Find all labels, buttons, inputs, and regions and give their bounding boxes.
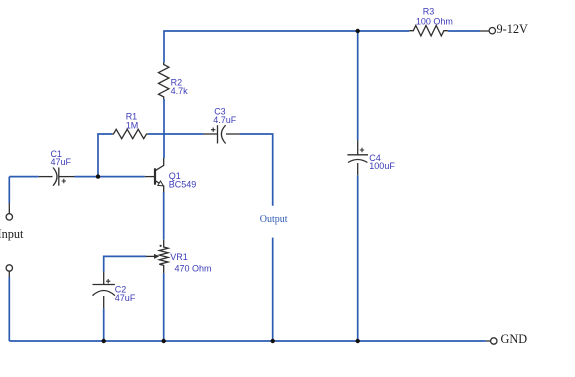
svg-text:47uF: 47uF — [115, 293, 136, 303]
svg-text:4.7k: 4.7k — [171, 86, 189, 96]
svg-text:GND: GND — [501, 332, 528, 346]
svg-text:1M: 1M — [126, 120, 139, 130]
svg-text:9-12V: 9-12V — [497, 22, 529, 36]
svg-text:R3: R3 — [423, 7, 435, 17]
svg-text:47uF: 47uF — [51, 157, 72, 167]
svg-text:BC549: BC549 — [169, 180, 197, 190]
svg-text:470 Ohm: 470 Ohm — [175, 263, 212, 273]
svg-text:VR1: VR1 — [170, 252, 188, 262]
svg-text:4.7uF: 4.7uF — [213, 115, 237, 125]
svg-text:100 Ohm: 100 Ohm — [416, 16, 453, 26]
svg-text:Output: Output — [260, 214, 288, 225]
svg-text:100uF: 100uF — [369, 161, 395, 171]
svg-text:Input: Input — [0, 227, 24, 241]
